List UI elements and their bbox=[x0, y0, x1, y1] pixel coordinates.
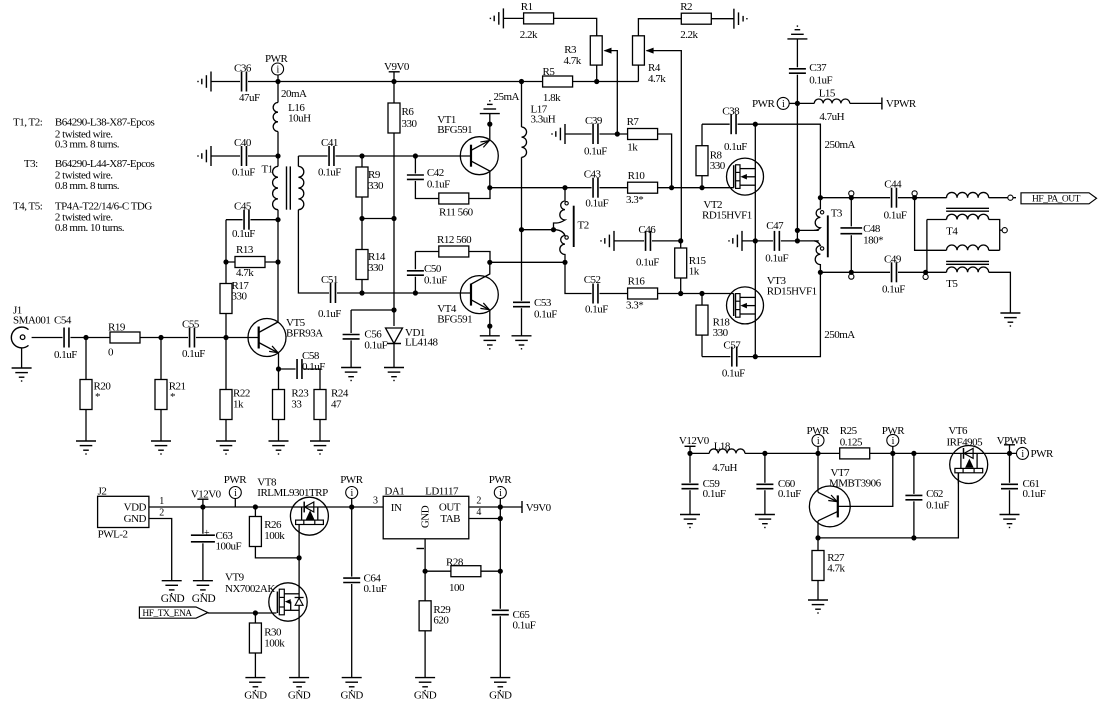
svg-text:*: * bbox=[95, 391, 100, 403]
svg-text:C36: C36 bbox=[234, 63, 252, 75]
svg-text:T1, T2:: T1, T2: bbox=[13, 117, 43, 129]
svg-text:J2: J2 bbox=[98, 486, 107, 498]
svg-text:3.3*: 3.3* bbox=[626, 194, 643, 206]
svg-text:47: 47 bbox=[331, 399, 342, 411]
svg-text:R5: R5 bbox=[543, 66, 556, 78]
svg-text:PWR: PWR bbox=[807, 425, 831, 437]
svg-text:C42: C42 bbox=[427, 167, 444, 179]
svg-text:R13: R13 bbox=[236, 244, 254, 256]
svg-text:0.1uF: 0.1uF bbox=[424, 275, 447, 287]
svg-text:100k: 100k bbox=[264, 530, 285, 542]
svg-text:0.1uF: 0.1uF bbox=[364, 340, 387, 352]
svg-text:R6: R6 bbox=[402, 106, 415, 118]
svg-text:2: 2 bbox=[159, 508, 164, 519]
svg-text:1k: 1k bbox=[233, 399, 244, 411]
svg-text:250mA: 250mA bbox=[825, 139, 856, 151]
svg-text:PWR: PWR bbox=[752, 98, 776, 110]
svg-text:1: 1 bbox=[159, 496, 164, 507]
svg-text:0.1uF: 0.1uF bbox=[778, 488, 801, 500]
svg-text:3.3uH: 3.3uH bbox=[531, 114, 556, 126]
svg-text:4.7k: 4.7k bbox=[564, 55, 582, 67]
svg-text:+: + bbox=[204, 528, 210, 539]
svg-text:0.1uF: 0.1uF bbox=[585, 198, 608, 210]
svg-text:330: 330 bbox=[713, 327, 729, 339]
svg-text:C52: C52 bbox=[584, 274, 601, 286]
svg-text:0.1uF: 0.1uF bbox=[1023, 488, 1046, 500]
svg-text:4.7k: 4.7k bbox=[827, 562, 845, 574]
svg-text:C44: C44 bbox=[884, 179, 902, 191]
svg-text:20mA: 20mA bbox=[281, 88, 307, 100]
svg-text:B64290-L44-X87-Epcos: B64290-L44-X87-Epcos bbox=[55, 158, 155, 170]
svg-text:BFG591: BFG591 bbox=[437, 124, 472, 136]
svg-text:GND: GND bbox=[341, 690, 364, 702]
svg-text:4.7uH: 4.7uH bbox=[819, 111, 844, 123]
svg-text:T4: T4 bbox=[946, 226, 958, 238]
svg-text:0.1uF: 0.1uF bbox=[724, 141, 747, 153]
svg-text:PWR: PWR bbox=[265, 53, 289, 65]
svg-text:0.125: 0.125 bbox=[840, 436, 863, 448]
svg-text:2.2k: 2.2k bbox=[680, 29, 698, 41]
svg-text:33: 33 bbox=[291, 399, 302, 411]
svg-text:C50: C50 bbox=[424, 263, 442, 275]
svg-text:1k: 1k bbox=[689, 266, 700, 278]
svg-text:0.1uF: 0.1uF bbox=[722, 368, 745, 380]
svg-text:*: * bbox=[170, 391, 175, 403]
svg-text:4.7uH: 4.7uH bbox=[712, 462, 737, 474]
svg-text:T5: T5 bbox=[946, 278, 958, 290]
svg-text:B64290-L38-X87-Epcos: B64290-L38-X87-Epcos bbox=[55, 117, 155, 129]
svg-text:0.1uF: 0.1uF bbox=[884, 210, 907, 222]
svg-text:C57: C57 bbox=[723, 340, 741, 352]
svg-text:620: 620 bbox=[433, 614, 449, 626]
svg-text:1.8k: 1.8k bbox=[543, 92, 561, 104]
svg-text:1k: 1k bbox=[627, 142, 638, 154]
svg-text:330: 330 bbox=[368, 262, 384, 274]
svg-text:0.1uF: 0.1uF bbox=[427, 179, 450, 191]
svg-text:C38: C38 bbox=[722, 105, 740, 117]
svg-text:SMA001: SMA001 bbox=[13, 315, 50, 327]
svg-text:GND: GND bbox=[161, 593, 185, 605]
svg-text:2: 2 bbox=[476, 496, 481, 507]
svg-text:C49: C49 bbox=[884, 253, 902, 265]
svg-text:L18: L18 bbox=[714, 441, 731, 453]
svg-text:T4, T5:: T4, T5: bbox=[13, 201, 43, 213]
svg-text:0.1uF: 0.1uF bbox=[318, 308, 341, 320]
svg-text:R19: R19 bbox=[108, 322, 126, 334]
svg-text:C53: C53 bbox=[534, 297, 552, 309]
svg-text:0.8 mm. 10 turns.: 0.8 mm. 10 turns. bbox=[55, 222, 125, 234]
svg-text:GND: GND bbox=[244, 690, 267, 702]
svg-text:0.1uF: 0.1uF bbox=[54, 349, 77, 361]
svg-text:C51: C51 bbox=[321, 274, 338, 286]
svg-text:OUT: OUT bbox=[439, 502, 461, 514]
svg-text:R16: R16 bbox=[628, 276, 646, 288]
svg-text:HF_TX_ENA: HF_TX_ENA bbox=[142, 609, 192, 619]
svg-text:R11 560: R11 560 bbox=[439, 207, 474, 219]
svg-text:C55: C55 bbox=[182, 319, 200, 331]
svg-text:25mA: 25mA bbox=[494, 91, 520, 103]
svg-text:0.1uF: 0.1uF bbox=[585, 304, 608, 316]
svg-text:IRLML9301TRP: IRLML9301TRP bbox=[257, 487, 328, 499]
svg-text:0.1uF: 0.1uF bbox=[232, 167, 255, 179]
svg-text:0.1uF: 0.1uF bbox=[703, 488, 726, 500]
svg-text:4.7k: 4.7k bbox=[648, 73, 666, 85]
svg-text:R2: R2 bbox=[680, 1, 692, 13]
svg-text:C39: C39 bbox=[585, 115, 603, 127]
svg-text:0.1uF: 0.1uF bbox=[232, 228, 255, 240]
svg-text:C40: C40 bbox=[234, 137, 252, 149]
svg-text:VT9: VT9 bbox=[225, 572, 245, 584]
svg-text:V9V0: V9V0 bbox=[526, 502, 552, 514]
svg-text:C48: C48 bbox=[863, 223, 881, 235]
svg-text:330: 330 bbox=[232, 291, 248, 303]
svg-text:3.3*: 3.3* bbox=[626, 300, 643, 312]
svg-text:330: 330 bbox=[402, 118, 418, 130]
svg-text:330: 330 bbox=[710, 160, 726, 172]
svg-text:330: 330 bbox=[368, 180, 384, 192]
svg-text:IRF4905: IRF4905 bbox=[947, 436, 984, 448]
svg-text:0.1uF: 0.1uF bbox=[809, 75, 832, 87]
svg-text:0.1uF: 0.1uF bbox=[513, 619, 536, 631]
svg-text:0.1uF: 0.1uF bbox=[534, 309, 557, 321]
svg-text:100k: 100k bbox=[264, 637, 285, 649]
svg-text:0.1uF: 0.1uF bbox=[584, 146, 607, 158]
svg-text:0.1uF: 0.1uF bbox=[765, 253, 788, 265]
svg-text:0.1uF: 0.1uF bbox=[364, 583, 387, 595]
svg-text:VPWR: VPWR bbox=[997, 435, 1028, 447]
svg-text:LL4148: LL4148 bbox=[405, 337, 438, 349]
svg-text:2.2k: 2.2k bbox=[520, 29, 538, 41]
svg-text:GND: GND bbox=[420, 505, 432, 528]
svg-text:4.7k: 4.7k bbox=[236, 267, 254, 279]
svg-text:T3: T3 bbox=[831, 208, 843, 220]
svg-text:R1: R1 bbox=[521, 1, 533, 13]
svg-text:PWR: PWR bbox=[340, 474, 364, 486]
svg-text:R10: R10 bbox=[628, 170, 646, 182]
svg-text:180*: 180* bbox=[863, 235, 883, 247]
svg-text:PWR: PWR bbox=[224, 474, 248, 486]
svg-text:V9V0: V9V0 bbox=[384, 61, 410, 73]
svg-text:GND: GND bbox=[489, 690, 512, 702]
svg-text:LD1117: LD1117 bbox=[425, 486, 459, 498]
svg-text:NX7002AK: NX7002AK bbox=[225, 583, 275, 595]
svg-text:L15: L15 bbox=[819, 88, 836, 100]
svg-text:RD15HVF1: RD15HVF1 bbox=[702, 210, 752, 222]
svg-text:PWR: PWR bbox=[882, 425, 906, 437]
svg-text:IN: IN bbox=[391, 502, 402, 514]
svg-text:V12V0: V12V0 bbox=[679, 435, 710, 447]
svg-text:PWL-2: PWL-2 bbox=[98, 529, 128, 541]
svg-text:HF_PA_OUT: HF_PA_OUT bbox=[1032, 195, 1081, 205]
svg-text:T3:: T3: bbox=[24, 158, 38, 170]
svg-text:10uH: 10uH bbox=[288, 113, 311, 125]
svg-text:0.1uF: 0.1uF bbox=[182, 348, 205, 360]
svg-text:GND: GND bbox=[124, 513, 147, 525]
svg-text:RD15HVF1: RD15HVF1 bbox=[767, 286, 817, 298]
svg-text:GND: GND bbox=[414, 690, 437, 702]
svg-text:0.1uF: 0.1uF bbox=[318, 167, 341, 179]
svg-text:C47: C47 bbox=[766, 220, 784, 232]
svg-text:100uF: 100uF bbox=[216, 541, 242, 553]
svg-text:C45: C45 bbox=[234, 201, 252, 213]
svg-text:R12 560: R12 560 bbox=[437, 234, 472, 246]
svg-text:MMBT3906: MMBT3906 bbox=[829, 478, 882, 490]
svg-text:C54: C54 bbox=[54, 314, 72, 326]
svg-text:BFG591: BFG591 bbox=[437, 314, 472, 326]
svg-text:VPWR: VPWR bbox=[886, 98, 917, 110]
svg-text:0.3 mm. 8 turns.: 0.3 mm. 8 turns. bbox=[55, 138, 120, 150]
svg-text:DA1: DA1 bbox=[384, 486, 404, 498]
svg-text:GND: GND bbox=[288, 690, 311, 702]
svg-text:100: 100 bbox=[449, 582, 465, 594]
svg-text:C43: C43 bbox=[584, 169, 602, 181]
svg-text:PWR: PWR bbox=[489, 474, 513, 486]
svg-text:R7: R7 bbox=[627, 116, 640, 128]
svg-text:47uF: 47uF bbox=[239, 92, 260, 104]
svg-text:VDD: VDD bbox=[124, 502, 147, 514]
svg-text:0.1uF: 0.1uF bbox=[302, 361, 325, 373]
svg-text:T2: T2 bbox=[578, 220, 589, 232]
svg-text:3: 3 bbox=[373, 496, 378, 507]
svg-text:PWR: PWR bbox=[1031, 448, 1055, 460]
svg-text:C41: C41 bbox=[321, 137, 338, 149]
svg-text:R28: R28 bbox=[446, 556, 464, 568]
svg-text:GND: GND bbox=[192, 593, 216, 605]
svg-text:C46: C46 bbox=[638, 224, 656, 236]
svg-text:0.1uF: 0.1uF bbox=[636, 257, 659, 269]
svg-text:250mA: 250mA bbox=[824, 329, 855, 341]
svg-text:0.8 mm. 8 turns.: 0.8 mm. 8 turns. bbox=[55, 180, 120, 192]
svg-text:T1: T1 bbox=[262, 164, 273, 176]
svg-text:TAB: TAB bbox=[440, 513, 460, 525]
svg-text:C37: C37 bbox=[809, 62, 827, 74]
svg-text:0.1uF: 0.1uF bbox=[882, 283, 905, 295]
svg-text:0.1uF: 0.1uF bbox=[926, 499, 949, 511]
svg-text:4: 4 bbox=[476, 507, 481, 518]
svg-text:V12V0: V12V0 bbox=[191, 489, 222, 501]
svg-text:BFR93A: BFR93A bbox=[286, 328, 323, 340]
